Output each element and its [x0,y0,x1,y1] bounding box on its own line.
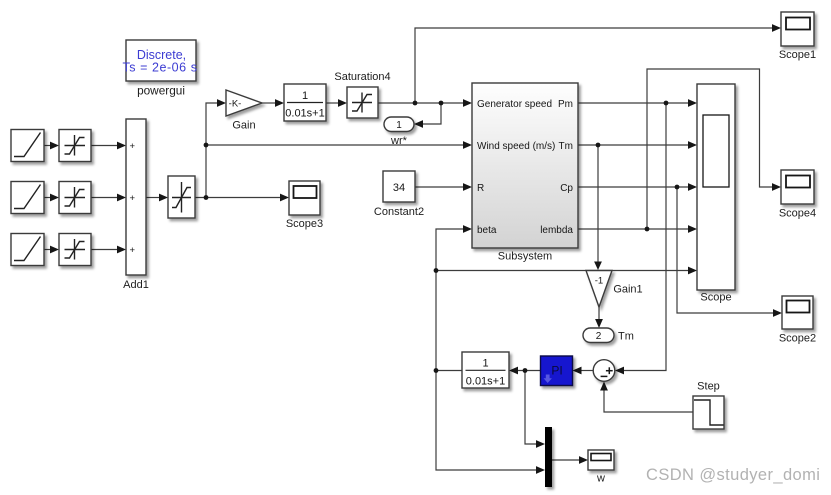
arrowhead into Mux input2 [536,466,545,474]
svg-text:Scope: Scope [700,292,731,304]
wire Sat3 to Add1 row3 [91,249,120,251]
wire Saturation4 to Subsystem Generator speed [378,102,466,104]
gain block Gain [226,90,262,132]
arrowhead into Scope in3 [688,183,697,191]
arrowhead into wr outport (leftward) [414,120,423,128]
wire mid saturation to Scope3 with junction node [195,197,283,199]
arrowhead into Add1 in1 [117,142,126,150]
arrowhead into Subsystem Generator speed [463,99,472,107]
svg-text:Ts = 2e-06 s: Ts = 2e-06 s [122,61,197,75]
svg-text:Saturation4: Saturation4 [334,71,390,83]
svg-text:+: + [130,245,136,256]
junction node lembda branch [645,227,650,232]
arrowhead into Scope3 [280,194,289,202]
PID controller block PI (blue) [541,356,573,386]
svg-text:Cp: Cp [560,183,573,194]
svg-text:-K-: -K- [229,99,242,110]
junction node to Scope1 [413,101,418,106]
ramp block 1 [11,130,44,162]
svg-text:+: + [130,141,136,152]
scope block Scope4 [779,170,816,220]
saturation block 2 [59,182,91,214]
wire Sat1 to Add1 row1 [91,145,120,147]
wire wind speed to Subsystem [206,144,466,146]
svg-text:CSDN @studyer_domi: CSDN @studyer_domi [646,466,820,484]
arrowhead into Scope in5 [688,267,697,275]
svg-text:Scope4: Scope4 [779,208,816,220]
svg-text:1: 1 [396,120,402,131]
saturation block 1 [59,130,91,162]
wire Sum to PI controller [579,370,593,372]
outport oval wr [384,117,414,147]
subsystem block Subsystem [472,83,578,263]
transfer function block TransferFcn1 (flipped) [462,352,509,388]
display block w [588,450,614,485]
svg-text:Scope2: Scope2 [779,333,816,345]
wire lembda to Scope [578,228,691,230]
ramp block 2 [11,182,44,214]
wire Ramp to Sat row2 [44,197,53,199]
svg-text:w: w [596,473,605,485]
svg-text:-1: -1 [595,276,603,287]
svg-text:R: R [477,183,484,194]
wire Sat2 to Add1 row2 [91,197,120,199]
arrowhead into Subsystem beta [463,225,472,233]
svg-text:Tm: Tm [559,141,573,152]
svg-text:Tm: Tm [618,331,634,343]
wire branch down to wr outport [420,103,441,124]
svg-text:Gain: Gain [232,120,255,132]
junction node PI out [523,368,528,373]
junction node to wr outport [439,101,444,106]
scope block Scope3 [286,181,323,230]
wire lembda branch up over to Scope4 [647,69,775,229]
saturation block Saturation4 [334,71,390,118]
arrowhead into Sat2 [50,194,59,202]
arrowhead into Gain1 (downward) [594,262,602,271]
junction node sat out [204,195,209,200]
wire Pm branch down to Sum plus input [621,103,666,371]
arrowhead into Saturation4 [338,99,347,107]
junction node Tm branch [596,143,601,148]
arrowhead into Subsystem R [463,183,472,191]
powergui block [122,40,197,98]
gain block Gain1 (pointing down) [586,271,643,308]
svg-text:34: 34 [393,182,405,194]
svg-text:beta: beta [477,225,497,236]
svg-text:PI: PI [551,364,562,378]
wire node up to Gain input [206,103,220,145]
wire Constant2 to R input [415,186,466,188]
adder block Add1 [123,119,149,291]
saturation block 3 [59,234,91,266]
wire Tm to Scope [578,144,691,146]
sum block (circle - +) [593,360,615,382]
wire PI branch down to Mux input1 [525,371,539,445]
junction node Cp branch [675,185,680,190]
junction node wind/gain [204,143,209,148]
wire Cp branch down to Scope2 [677,187,776,313]
wire PI controller to TransferFcn1 with junction [515,370,541,372]
arrowhead into Display w [579,456,588,464]
ramp block 3 [11,234,44,266]
arrowhead into Mux input1 [536,440,545,448]
outport oval Tm (2) [583,328,634,343]
junction node beta to scope [434,268,439,273]
saturation block mid [168,176,195,218]
arrowhead into PI controller (leftward) [573,367,582,375]
arrowhead into Add1 in3 [117,246,126,254]
wire Gain1 to Tm outport [598,307,600,322]
wire node up from 197.5 to wind-speed line [205,145,207,198]
arrowhead into Scope4 [772,183,781,191]
arrowhead into TransferFcn [275,99,284,107]
arrowhead into Sat3 [50,246,59,254]
arrowhead into Sum plus (leftward) [615,367,624,375]
arrowhead into Sum minus (upward) [600,382,608,391]
arrowhead into Add1 in2 [117,194,126,202]
step block Step (flipped) [693,381,724,430]
wire Add1 to mid saturation [146,197,162,199]
wire beta branch right to Scope input5 [436,270,691,272]
svg-text:Generator speed: Generator speed [477,99,552,110]
wire beta net vertical from TransferFcn1 up to beta input [436,229,466,371]
constant block Constant2 [374,171,424,218]
svg-text:Subsystem: Subsystem [498,251,552,263]
wire Transfer Fcn to Saturation4 [326,102,341,104]
svg-text:Constant2: Constant2 [374,206,424,218]
svg-text:Gain1: Gain1 [613,284,642,296]
arrowhead into Scope in1 [688,99,697,107]
mux block (black bar) [545,427,552,487]
scope block Scope (5 inputs) [697,84,735,304]
transfer function block TransferFcn [284,84,326,121]
svg-text:Step: Step [697,381,720,393]
svg-text:Pm: Pm [558,99,573,110]
svg-text:2: 2 [596,331,602,342]
arrowhead into Subsystem Wind speed [463,141,472,149]
svg-text:Add1: Add1 [123,279,149,291]
arrowhead into Sat1 [50,142,59,150]
svg-text:1: 1 [302,90,308,102]
arrowhead into Scope in4 [688,225,697,233]
wire beta branch down to Mux input2 [436,371,539,471]
svg-text:0.01s+1: 0.01s+1 [285,108,324,120]
arrowhead into Scope1 [772,24,781,32]
wire Ramp to Sat row1 [44,145,53,147]
scope block Scope2 [779,296,816,345]
arrowhead into mid saturation [159,194,168,202]
svg-text:wr*: wr* [390,135,408,147]
svg-text:Scope3: Scope3 [286,218,323,230]
arrowhead into Scope in2 [688,141,697,149]
wire branch up to Scope1 [415,28,775,103]
wire Cp to Scope [578,186,691,188]
arrowhead into Gain [217,99,226,107]
wire Ramp to Sat row3 [44,249,53,251]
junction node Pm branch [664,101,669,106]
wire Pm to Scope [578,102,691,104]
arrowhead into Tm outport (downward) [595,319,603,328]
wire Gain to Transfer Fcn [262,102,278,104]
arrowhead into Scope2 [773,309,782,317]
svg-text:Wind speed (m/s): Wind speed (m/s) [477,141,555,152]
svg-text:powergui: powergui [137,84,185,98]
svg-text:0.01s+1: 0.01s+1 [466,376,505,388]
wire Mux to Display w [552,459,582,461]
svg-text:lembda: lembda [540,225,573,236]
svg-text:+: + [130,193,136,204]
arrowhead into TransferFcn1 (leftward) [509,367,518,375]
wire Tm branch down to Gain1 [597,145,599,263]
wire Step to Sum minus input [604,388,693,412]
scope block Scope1 [779,12,816,61]
svg-text:1: 1 [482,358,488,370]
svg-text:Scope1: Scope1 [779,49,816,61]
junction node beta bottom [434,368,439,373]
